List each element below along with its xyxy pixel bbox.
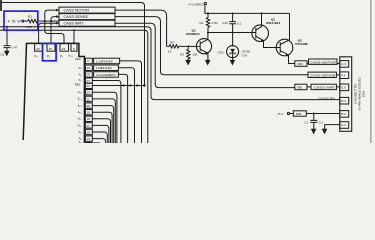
ground below R3 [187, 58, 189, 60]
pin box E.5 [340, 84, 349, 91]
terminal +5V for cassette [287, 112, 289, 114]
svg-text:RES: RES [75, 82, 81, 86]
node R2 top junction [207, 12, 209, 14]
arrowhead into CASS WRT box [56, 22, 59, 25]
capacitor C10 0.1 [229, 13, 236, 32]
node junction dot on pull-up line [44, 20, 46, 22]
svg-text:24: 24 [62, 47, 66, 51]
svg-text:CASS WRT: CASS WRT [314, 86, 335, 90]
transistor Q3 TP29B [276, 39, 293, 56]
wire 6510 pin 24 up and around to CASS MOTOR [45, 10, 64, 44]
pin box D.4 [340, 97, 349, 104]
svg-text:7.5V: 7.5V [241, 54, 247, 58]
pin box A.1 [340, 122, 349, 129]
ground below C9 [6, 48, 8, 52]
pin box 6 [71, 44, 77, 52]
svg-text:1K: 1K [168, 49, 172, 53]
pin box 16 / A9 [85, 129, 92, 134]
capacitor C1 0.1 [310, 114, 317, 129]
svg-text:27: 27 [87, 79, 91, 83]
svg-text:2N4401: 2N4401 [266, 21, 281, 25]
node RES junction dot [143, 84, 145, 86]
ferrite bead FB1 box [295, 84, 307, 90]
node C9 junction dot [6, 26, 8, 28]
svg-text:R1: R1 [28, 14, 32, 18]
svg-text:C9: C9 [1, 52, 5, 56]
svg-text:0.47: 0.47 [12, 45, 18, 49]
resistor R2 1.5K vertical [206, 13, 209, 31]
svg-text:20: 20 [87, 104, 91, 108]
svg-text:A.1: A.1 [341, 123, 346, 127]
wire 6510 pin 26 up to CASS WRT [39, 23, 59, 44]
net box CASS MOTOR [59, 7, 115, 13]
svg-text:18: 18 [87, 117, 91, 121]
svg-text:40: 40 [87, 84, 91, 88]
svg-text:10K: 10K [192, 52, 197, 56]
pin box 14 / A7 [85, 142, 100, 145]
svg-text:B.2: B.2 [341, 112, 346, 116]
svg-text:C1: C1 [304, 120, 308, 124]
svg-text:+ 9 V UNREG: + 9 V UNREG [188, 3, 204, 7]
svg-text:23: 23 [87, 91, 91, 95]
arrowheads on RES line [121, 84, 145, 87]
net box CASS SENSE [59, 14, 115, 20]
svg-text:CASSETTE: CASSETTE [354, 84, 358, 104]
wire unnamed net from left edge to bottom [0, 30, 148, 143]
svg-text:FB1: FB1 [297, 86, 303, 90]
wire 6510 pin 25 up to CASS SENSE [51, 17, 59, 44]
node A at R2 bottom / Q2 collector [207, 32, 209, 34]
svg-text:+ 5 V: + 5 V [7, 19, 23, 23]
capacitor C9 0.47 [4, 27, 11, 51]
svg-text:HIRAM: HIRAM [96, 66, 112, 70]
ground for A.1 [324, 128, 326, 129]
pin box 19 / A12 [85, 110, 92, 115]
arrowhead into CASS MOTOR box [56, 9, 59, 12]
resistor R4 1K horizontal [167, 45, 188, 48]
svg-text:19: 19 [87, 111, 91, 115]
connector CN3 cassette edge outline [340, 57, 352, 132]
svg-text:F.6: F.6 [341, 73, 345, 77]
ground below CR2 [232, 58, 234, 61]
svg-text:CASS RD: CASS RD [319, 96, 336, 100]
node Vcc junction dot [73, 29, 75, 31]
svg-text:R4: R4 [170, 40, 174, 44]
svg-text:D.4: D.4 [341, 99, 346, 103]
node C10 top junction [232, 12, 234, 14]
svg-text:22: 22 [87, 97, 91, 101]
svg-text:+5 V: +5 V [277, 112, 284, 116]
svg-text:CASS MOTOR: CASS MOTOR [64, 9, 90, 13]
node base junction dot [187, 45, 189, 47]
svg-text:15: 15 [87, 137, 91, 141]
scan artifact left edge top [0, 0, 2, 11]
op-amp ... IC U7 6510 CPU outline [23, 43, 84, 143]
ground below Q2 emitter [207, 58, 209, 60]
svg-text:0.1: 0.1 [319, 120, 324, 124]
wire node A (zener node) [208, 32, 256, 34]
pin box 17 / A10 [85, 123, 92, 128]
node junction dot pull-up to P4 [50, 20, 52, 22]
svg-text:17: 17 [87, 124, 91, 128]
pin box 29 / row HIRAM [85, 65, 92, 71]
pin box 22 / A14 [85, 96, 92, 101]
wire CASS SENSE to connector [115, 17, 308, 75]
svg-text:CASS MOTOR: CASS MOTOR [310, 60, 337, 64]
wire CASS MOTOR to R4 [115, 10, 167, 46]
wire CASS RD net from left edge [0, 27, 340, 100]
svg-text:CN3: CN3 [361, 91, 365, 97]
wire 6510 pin 6 Vcc up [73, 30, 75, 44]
blue annotation box around pin 25 P4 [43, 43, 57, 60]
resistor R3 10K vertical [187, 46, 190, 60]
net box CASS MOTOR (right) [307, 63, 340, 65]
wire top border / RES net from top [0, 3, 145, 86]
svg-text:C.3: C.3 [341, 62, 346, 66]
net box CASS WRT [59, 20, 115, 26]
ground below C1 [313, 128, 315, 129]
svg-text:28: 28 [87, 73, 91, 77]
arrowhead into CASS SENSE box [56, 15, 59, 18]
svg-text:CASS SENSE: CASS SENSE [64, 15, 89, 19]
svg-text:TP29B: TP29B [295, 42, 309, 46]
net box CASS SENSE (right) [308, 72, 336, 77]
svg-text:C10: C10 [222, 21, 228, 25]
scan artifact right page edge [370, 0, 371, 143]
pin box B.2 [340, 111, 349, 118]
svg-text:AEC: AEC [75, 57, 81, 61]
node Q1 collector junction [261, 12, 263, 14]
resistor R1 3.3K pull-up with +5V terminal [22, 20, 24, 22]
wire +9V UNREG rail [204, 2, 206, 4]
wire CASS WRT to FB1 [115, 23, 295, 87]
zener diode CR2 1N758 [227, 46, 239, 58]
pin box 5 / row LORAM [85, 58, 92, 64]
ferrite bead FB3 box [290, 113, 294, 115]
transistor Q1 2N4401 [252, 25, 269, 42]
svg-text:26: 26 [36, 47, 40, 51]
svg-text:CASS SENSE: CASS SENSE [310, 73, 336, 77]
pin box 26 [35, 44, 43, 52]
pin box 20 / A13 [85, 103, 92, 108]
pin box 25 [47, 44, 55, 52]
svg-text:E.5: E.5 [341, 86, 346, 90]
svg-text:LORAM: LORAM [96, 59, 113, 63]
svg-text:25: 25 [49, 47, 53, 51]
svg-text:CASS WRT: CASS WRT [64, 22, 84, 26]
pin box 28 / row CHAREN [85, 72, 92, 78]
pin box 24 [60, 44, 69, 52]
svg-text:R3: R3 [180, 52, 184, 56]
svg-text:FB2: FB2 [297, 62, 303, 66]
svg-text:R2: R2 [200, 21, 204, 25]
pin box 40 / row RES [85, 83, 92, 88]
blue annotation box around R1 [4, 11, 38, 30]
wire A.1 to ground [325, 125, 340, 128]
pin box 15 / A8 [85, 136, 92, 141]
pin box 27 / row P2 [85, 78, 92, 83]
svg-text:1.5K: 1.5K [212, 21, 218, 25]
svg-text:0.1: 0.1 [237, 21, 242, 25]
node A at CR2 / C10 junction [232, 32, 234, 34]
svg-text:CHAREN: CHAREN [96, 73, 116, 77]
svg-text:16: 16 [87, 130, 91, 134]
transistor Q2 2N3904 [196, 39, 211, 54]
ferrite bead FB2 box [295, 61, 307, 67]
pin box 18 / A11 [85, 116, 92, 121]
svg-text:CR2: CR2 [218, 50, 224, 54]
svg-text:FB3: FB3 [296, 112, 302, 116]
pin box F.6 [340, 72, 349, 79]
pin box 23 / A15 [85, 90, 92, 95]
net box CASS WRT (right) [307, 86, 340, 88]
svg-text:6: 6 [73, 47, 75, 51]
node junction dot C1 tap [313, 113, 315, 115]
pin box C.3 [340, 61, 349, 68]
svg-text:2N3904: 2N3904 [186, 32, 200, 36]
svg-text:29: 29 [87, 66, 91, 70]
svg-text:3.3K: 3.3K [26, 25, 32, 29]
